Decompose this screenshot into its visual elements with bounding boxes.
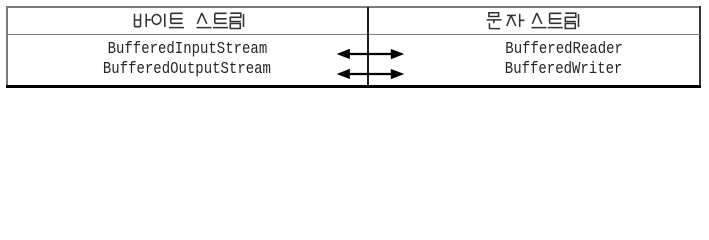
syllable 트 (second in word) xyxy=(213,13,228,27)
syllable 림 (first word) xyxy=(230,13,243,28)
syllable 스 (second word) xyxy=(532,13,547,28)
syllable 스 (first word) xyxy=(197,13,212,28)
right cell text: BufferedReader xyxy=(505,41,623,58)
double-headed arrow row 2 xyxy=(337,69,405,79)
left cell text: BufferedInputStream xyxy=(108,41,268,58)
header cell text: 바이트 스트림 (left column header, drawn as SVG strokes) xyxy=(0,12,709,30)
header cell text: 문자 스트림 (right column header, drawn as SVG strokes) xyxy=(487,13,579,29)
syllable 자 xyxy=(507,14,525,27)
left cell text: BufferedOutputStream xyxy=(103,61,271,78)
table outer border: right edge xyxy=(699,6,702,87)
syllable 바 xyxy=(135,14,151,27)
header row divider line xyxy=(6,34,700,36)
syllable 트 (first word) xyxy=(169,13,184,27)
syllable 이 xyxy=(152,14,165,27)
table outer border: left edge xyxy=(6,6,8,87)
column divider line xyxy=(367,7,369,86)
right cell text: BufferedWriter xyxy=(505,61,623,78)
table outer border: bottom edge xyxy=(6,85,701,88)
double-headed arrow row 1 xyxy=(330,44,410,84)
syllable 림 (second word) xyxy=(565,13,578,28)
syllable 트 (second word) xyxy=(548,13,563,27)
table outer border: top edge xyxy=(6,6,702,8)
syllable 문 xyxy=(487,13,502,29)
